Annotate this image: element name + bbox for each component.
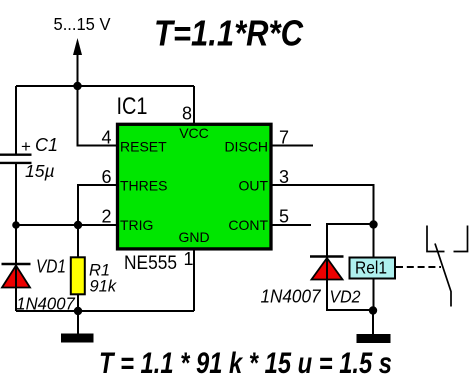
svg-text:91k: 91k [90, 278, 117, 296]
resistor R1 [71, 257, 85, 294]
svg-text:C1: C1 [35, 135, 58, 155]
junction R node [74, 221, 82, 229]
junction Rel1 bottom node [369, 306, 377, 314]
diode VD2 [310, 257, 344, 280]
svg-text:VCC: VCC [179, 125, 209, 141]
svg-text:8: 8 [182, 104, 192, 124]
svg-text:6: 6 [101, 167, 111, 187]
svg-text:1: 1 [184, 249, 194, 269]
wire VD1 through lead [15, 225, 17, 311]
svg-text:VD2: VD2 [330, 287, 361, 307]
svg-text:15µ: 15µ [25, 161, 55, 181]
junction OUT node [369, 220, 377, 228]
wire reset branch [78, 86, 117, 146]
junction bottom node [74, 307, 82, 315]
svg-text:Rel1: Rel1 [355, 258, 387, 278]
svg-text:IC1: IC1 [117, 93, 148, 120]
junction supply node [73, 82, 81, 90]
capacitor C1 [0, 155, 32, 163]
wire R1 top lead [77, 225, 79, 257]
svg-text:T=1.1*R*C: T=1.1*R*C [154, 13, 304, 54]
wire VCC pin8 drop [193, 86, 195, 124]
dashed link relay to contact [396, 266, 441, 268]
svg-text:T = 1.1 * 91 k * 15 u = 1.5 s: T = 1.1 * 91 k * 15 u = 1.5 s [99, 347, 392, 380]
wire DISCH stub pin7 [271, 145, 313, 147]
svg-text:4: 4 [101, 128, 111, 148]
svg-text:THRES: THRES [120, 178, 167, 194]
svg-text:CONT: CONT [228, 217, 268, 233]
wire VD2 branch [327, 224, 374, 310]
wire Rel1 bottom lead [373, 279, 375, 311]
wire thres branch [78, 185, 116, 225]
junction left node [12, 221, 20, 229]
wire supply rail horizontal [16, 85, 194, 87]
op-amp timer IC1 NE555 body [118, 124, 272, 249]
relay contact left terminal [427, 226, 445, 252]
wire GND pin1 drop [193, 250, 195, 311]
wire bottom ground rail [16, 310, 194, 312]
wire ground stub right [372, 311, 374, 335]
supply arrow [73, 38, 82, 86]
svg-text:TRIG: TRIG [120, 217, 153, 233]
wire C1 bottom lead [15, 163, 17, 226]
svg-text:5...15 V: 5...15 V [54, 14, 111, 34]
svg-text:2: 2 [101, 207, 111, 227]
svg-text:GND: GND [178, 229, 209, 245]
wire CONT stub pin5 [271, 224, 311, 226]
svg-text:OUT: OUT [238, 178, 268, 194]
wire OUT pin3 run [271, 185, 374, 258]
relay contact right terminal [454, 226, 468, 252]
wire C1 top lead [15, 86, 17, 155]
wire R1 bottom lead [77, 294, 79, 311]
svg-text:DISCH: DISCH [224, 139, 268, 155]
svg-text:NE555: NE555 [124, 253, 177, 274]
svg-text:5: 5 [279, 207, 289, 227]
svg-text:RESET: RESET [120, 139, 167, 155]
diode VD1 [2, 264, 31, 288]
relay Rel1 [350, 258, 396, 279]
svg-text:+: + [21, 137, 31, 156]
ground right [357, 334, 391, 343]
wire trigger line [16, 224, 116, 226]
svg-text:VD1: VD1 [36, 257, 66, 277]
wire ground stub left [77, 311, 79, 335]
relay contact arm [435, 244, 451, 307]
svg-text:1N4007: 1N4007 [261, 287, 322, 307]
ground left [61, 334, 94, 343]
